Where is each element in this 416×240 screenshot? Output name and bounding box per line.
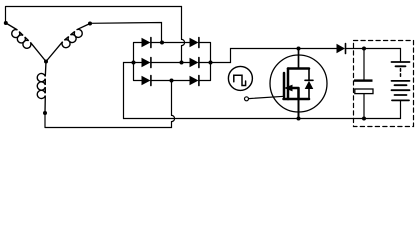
node B (phase B terminal) — [88, 22, 92, 26]
node capacitor bottom junction — [362, 117, 366, 121]
wire phase A drop to bridge row 2 — [181, 7, 183, 63]
node drain to top rail — [297, 47, 301, 51]
wire bridge positive bus (right) — [200, 43, 211, 81]
wire gate lead — [249, 96, 284, 98]
battery B1 omitted-cells dotted line — [400, 69, 402, 79]
transistor Q1 gate bar — [283, 73, 286, 97]
inductor L3 phase C winding — [37, 62, 46, 114]
wire top rail after diode into box — [346, 48, 401, 50]
wire phase B to bridge row 1 — [90, 23, 162, 43]
node bridge row2 phase A junction — [180, 61, 184, 65]
wire phase C riser to bridge row 3 — [45, 81, 172, 128]
node A (phase A terminal) — [4, 21, 8, 25]
inductor L1 phase A winding — [6, 23, 46, 62]
wire bottom rail — [124, 118, 401, 120]
wire source lead — [298, 99, 300, 119]
wire bridge negative bus (left) — [134, 43, 142, 81]
node bridge right bus row2 — [209, 61, 213, 65]
node source to bottom rail — [297, 117, 301, 121]
battery B1 leads — [400, 49, 402, 119]
gate terminal (open circle) — [245, 97, 249, 101]
wire crossover hop on phase A drop — [182, 39, 185, 45]
node bridge left bus row2 — [132, 61, 136, 65]
diode body diode of Q1 — [305, 69, 314, 100]
transistor Q1 drain stub — [288, 67, 309, 70]
diode D5 bridge row3 left — [142, 76, 151, 86]
wire negative tap down to bottom rail — [124, 63, 134, 119]
transistor Q1 source stub — [284, 98, 310, 101]
wire bridge row 2 center — [151, 62, 190, 64]
diode D3 bridge row2 left — [142, 58, 151, 68]
battery B1 cells — [392, 62, 410, 100]
node bridge row1 phase B junction — [160, 41, 164, 45]
wire drain lead — [298, 49, 300, 69]
node N (wye center junction) — [44, 60, 48, 64]
transistor Q1 MOSFET envelope — [270, 55, 327, 112]
node C (phase C terminal) — [43, 111, 47, 115]
diode D1 bridge row1 left — [142, 38, 151, 48]
diode D2 bridge row1 right — [190, 38, 199, 48]
dashed battery/capacitor enclosure box — [354, 41, 414, 127]
transistor Q1 body stub with arrow — [288, 88, 299, 99]
capacitor C1 bottom plate — [355, 89, 373, 94]
transistor Q1 channel bar — [287, 69, 290, 100]
wire top outer rail from phase A — [6, 7, 182, 24]
wire bridge row 1 center — [151, 42, 190, 44]
diode D4 bridge row2 right — [190, 58, 199, 68]
node capacitor top junction — [362, 47, 366, 51]
node bridge row3 phase C junction — [170, 79, 174, 83]
capacitor C1 leads — [363, 49, 365, 119]
wire positive tap to top rail — [211, 49, 337, 63]
wire crossover hop on phase C riser — [172, 115, 175, 121]
wire bridge row 3 center — [151, 80, 190, 82]
capacitor C1 top plate — [354, 79, 373, 81]
diode D6 bridge row3 right — [190, 76, 199, 86]
inductor L2 phase B winding — [46, 24, 90, 62]
pulse source gate driver symbol — [228, 66, 252, 90]
diode D7 blocking diode — [337, 44, 346, 54]
